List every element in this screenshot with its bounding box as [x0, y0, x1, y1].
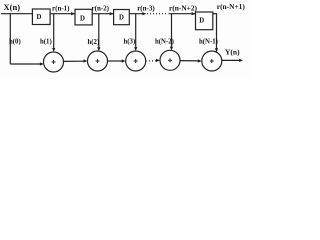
svg-text:h(3): h(3) [124, 39, 136, 46]
svg-text:Y(n): Y(n) [225, 48, 240, 57]
svg-text:h(0): h(0) [9, 39, 21, 46]
svg-text:h(N-2): h(N-2) [155, 38, 174, 45]
svg-text:D: D [80, 16, 85, 23]
svg-text:r(n-2): r(n-2) [92, 4, 110, 12]
svg-text:h(1): h(1) [40, 39, 52, 46]
svg-text:D: D [119, 14, 124, 21]
svg-text:h(N-1): h(N-1) [199, 38, 218, 45]
svg-text:r(n-N+1): r(n-N+1) [217, 2, 246, 11]
svg-text:X(n): X(n) [4, 2, 21, 12]
svg-text:r(n-3): r(n-3) [137, 5, 155, 13]
svg-text:D: D [199, 18, 204, 25]
svg-text:r(n-1): r(n-1) [52, 4, 70, 12]
svg-text:h(2): h(2) [88, 39, 100, 46]
svg-text:r(n-N+2): r(n-N+2) [169, 4, 198, 13]
svg-text:D: D [37, 14, 42, 21]
